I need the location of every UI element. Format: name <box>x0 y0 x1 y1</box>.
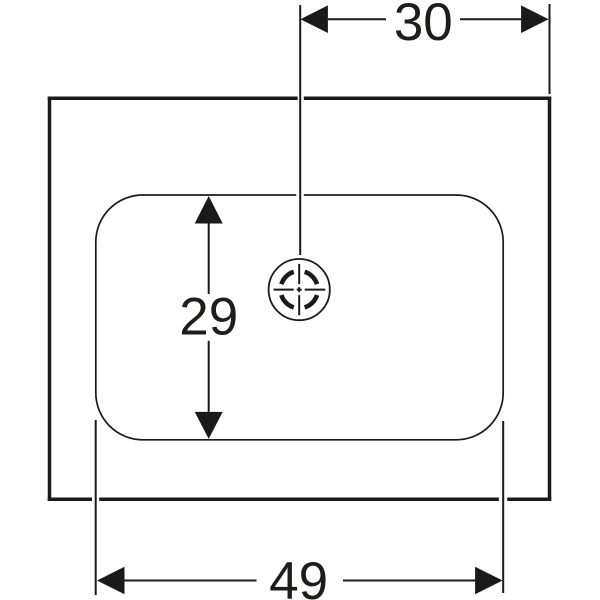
dimension 29 line segments <box>208 224 210 412</box>
dimension 49 line segments <box>125 580 476 582</box>
extension line bottom left <box>95 420 97 595</box>
washbasin outer edge (ceramic outline, top view) <box>48 97 552 502</box>
dimension 29 up arrow <box>195 196 223 224</box>
dimension 30 left arrow <box>300 5 328 33</box>
centerline (vertical, through drain) <box>299 5 301 255</box>
drain symbol outer circle <box>269 259 330 320</box>
drain crosshair vertical dash-dot <box>298 264 300 315</box>
dimension 30 right arrow <box>521 5 549 33</box>
extension line top right <box>549 4 551 94</box>
basin inner edge (rounded bowl rim) <box>96 195 503 440</box>
dimension 49 right arrow <box>475 567 503 595</box>
gap in bowl rim where centerline crosses <box>296 193 304 197</box>
svg-text:29: 29 <box>179 287 238 346</box>
dimension 29 down arrow <box>195 412 223 439</box>
drain crosshair horizontal dash-dot <box>274 289 326 291</box>
extension line bottom right <box>502 421 504 593</box>
svg-text:49: 49 <box>269 552 328 600</box>
drain symbol thick ring arcs <box>281 272 317 308</box>
dimension 30 line segments <box>328 18 521 20</box>
dimension 49 left arrow <box>97 567 125 595</box>
svg-text:30: 30 <box>394 0 453 52</box>
